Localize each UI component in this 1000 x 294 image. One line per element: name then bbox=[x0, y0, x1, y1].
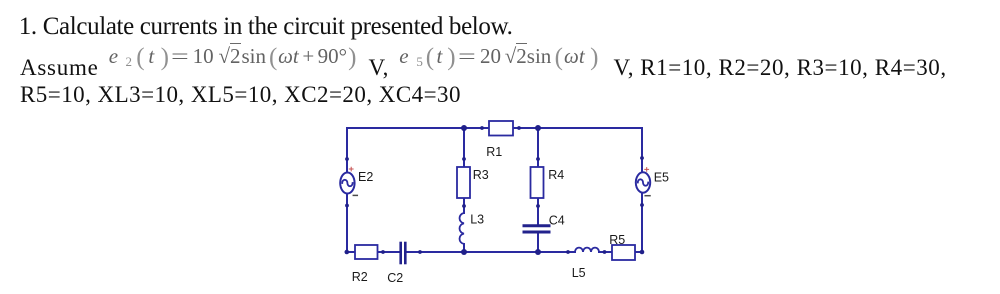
inductor L5 bbox=[575, 248, 599, 252]
line 3 bbox=[20, 83, 461, 106]
pin dot L5 left bbox=[566, 250, 570, 254]
svg-text:L5: L5 bbox=[572, 266, 586, 280]
wire R3 branch upper bbox=[463, 128, 465, 167]
svg-text:R1: R1 bbox=[486, 145, 502, 159]
junction bottom-L3 bbox=[461, 249, 467, 255]
pin dot R1 right bbox=[517, 126, 521, 130]
pin dot E2 top bbox=[345, 157, 349, 161]
wire C4 bottom link bbox=[537, 234, 539, 252]
E5 minus mark bbox=[645, 195, 650, 197]
wire R4 branch upper bbox=[537, 128, 539, 167]
pin dot R3 top bbox=[462, 157, 466, 161]
wire top bbox=[347, 127, 642, 129]
source E5 bbox=[636, 172, 650, 192]
pin dot C4 top bbox=[536, 204, 540, 208]
wire bottom left segment bbox=[346, 251, 399, 253]
junction top-R4 bbox=[535, 125, 541, 131]
line 2: Assume bbox=[20, 56, 99, 79]
wire bottom right segment bbox=[599, 251, 642, 253]
svg-text:C4: C4 bbox=[549, 214, 565, 228]
svg-text:E2: E2 bbox=[358, 170, 373, 184]
wire right vertical bbox=[641, 128, 643, 252]
wire R4-C4 link bbox=[537, 198, 539, 224]
svg-text:R5: R5 bbox=[609, 233, 625, 247]
pin dot E5 top bbox=[640, 156, 644, 160]
pin dot R1 left bbox=[480, 126, 484, 130]
wire bottom middle segment bbox=[407, 251, 575, 253]
title line 1 bbox=[19, 14, 513, 39]
inductor L3 bbox=[460, 213, 464, 244]
line 2: V, R values bbox=[614, 56, 947, 79]
pin dot R4 top bbox=[536, 157, 540, 161]
svg-text:R3: R3 bbox=[473, 168, 489, 182]
resistor R3 bbox=[457, 167, 470, 198]
pin dot bottom-left corner bbox=[345, 250, 350, 255]
source E2 bbox=[340, 173, 354, 194]
E2 minus mark bbox=[353, 194, 357, 196]
pin dot E5 bottom bbox=[640, 203, 644, 207]
svg-text:R2: R2 bbox=[352, 270, 368, 284]
svg-text:C2: C2 bbox=[387, 271, 403, 285]
line 2: V, bbox=[369, 56, 389, 79]
E5 plus mark bbox=[645, 168, 649, 172]
wire R3-L3 link bbox=[463, 198, 465, 213]
pin dot E2 bottom bbox=[345, 204, 349, 208]
wire left vertical bbox=[346, 128, 348, 252]
junction bottom-C4 bbox=[535, 249, 541, 255]
pin dot C2 right bbox=[418, 250, 422, 254]
svg-text:E5: E5 bbox=[654, 171, 669, 185]
svg-text:R4: R4 bbox=[548, 168, 564, 182]
resistor R5 bbox=[612, 245, 635, 260]
formula e2(t) bbox=[109, 46, 357, 72]
resistor R4 bbox=[531, 167, 544, 198]
svg-text:L3: L3 bbox=[470, 212, 484, 226]
resistor R1 bbox=[489, 121, 513, 136]
pin dot L3 top bbox=[462, 204, 466, 208]
capacitor C2 bbox=[401, 243, 406, 263]
resistor R2 bbox=[355, 245, 378, 259]
junction bottom-right corner bbox=[640, 250, 645, 255]
formula e5(t) bbox=[399, 46, 598, 72]
wire L3 bottom link bbox=[463, 244, 465, 252]
junction top-R3 bbox=[461, 125, 467, 131]
E2 plus mark bbox=[349, 167, 353, 171]
pin dot L5 right bbox=[603, 250, 607, 254]
pin dot C2 left bbox=[381, 250, 385, 254]
capacitor C4 bbox=[524, 226, 549, 232]
